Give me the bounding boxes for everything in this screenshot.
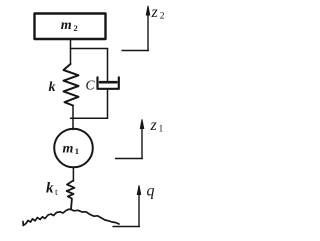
- svg-text:z: z: [150, 117, 158, 134]
- wire horizontal to damper branch: [71, 48, 108, 50]
- q arrowhead: [137, 185, 142, 195]
- wire spring k bottom: [72, 106, 74, 119]
- z1 arrowhead: [140, 119, 145, 129]
- damper C piston plate: [100, 81, 117, 84]
- wire damper rod upper: [107, 49, 109, 82]
- damper C cup: [98, 77, 119, 89]
- wire junction spring/damper to mass m1: [71, 117, 108, 119]
- spring kt: [67, 181, 75, 210]
- wire box bottom to spring top: [70, 39, 72, 64]
- svg-text:z: z: [151, 4, 159, 21]
- svg-text:m: m: [63, 141, 74, 156]
- svg-text:q: q: [147, 183, 155, 200]
- wire damper rod lower: [107, 89, 109, 119]
- svg-text:2: 2: [160, 12, 165, 22]
- z2 arrowhead: [146, 6, 151, 16]
- z1 axis: [116, 158, 143, 160]
- svg-text:t: t: [55, 188, 58, 198]
- mass m2 body: [35, 14, 106, 40]
- wire mass m1 to spring kt: [72, 167, 74, 181]
- svg-text:C: C: [86, 78, 96, 93]
- svg-text:k: k: [49, 80, 56, 95]
- z2 axis: [122, 50, 148, 52]
- svg-text:1: 1: [159, 125, 164, 135]
- spring k: [64, 64, 79, 106]
- mass m1 body: [54, 129, 93, 168]
- svg-text:1: 1: [75, 146, 79, 156]
- svg-text:k: k: [46, 181, 54, 197]
- svg-text:m: m: [61, 18, 72, 33]
- q axis: [113, 226, 139, 228]
- ground profile: [23, 209, 119, 225]
- svg-text:2: 2: [74, 23, 78, 33]
